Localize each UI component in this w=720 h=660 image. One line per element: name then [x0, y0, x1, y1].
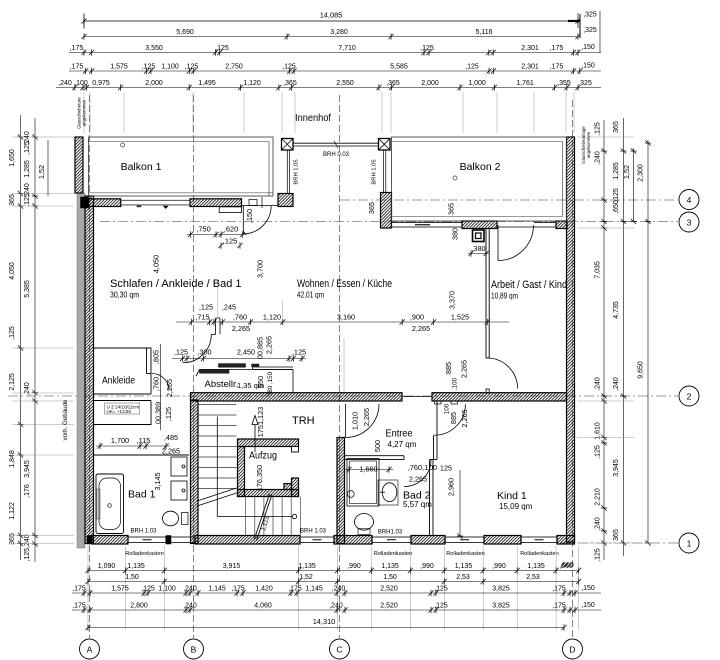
left dimension chain outer	[9, 115, 24, 560]
svg-text:1,50: 1,50	[383, 574, 397, 581]
svg-text:,650: ,650	[613, 200, 620, 214]
svg-text:2,301: 2,301	[521, 45, 539, 52]
svg-text:1,700: 1,700	[111, 436, 129, 445]
svg-text:00: 00	[429, 463, 437, 472]
column with inner square (Arbeit)	[473, 230, 485, 242]
TRH right wall	[337, 438, 345, 544]
door arc Entree-Kind 1	[434, 404, 465, 435]
column with X at Innenhof left-bottom	[278, 194, 293, 207]
svg-text:2,265: 2,265	[460, 360, 469, 378]
svg-text:1,848: 1,848	[9, 450, 16, 468]
svg-text:,175: ,175	[552, 586, 566, 593]
svg-text:2,450: 2,450	[237, 348, 255, 357]
svg-text:1,525: 1,525	[451, 313, 469, 322]
svg-text:2,53: 2,53	[456, 574, 470, 581]
svg-text:Rolladenkasten: Rolladenkasten	[125, 551, 164, 557]
left horizontal extension lines	[12, 137, 74, 544]
right exterior wall	[567, 137, 575, 542]
svg-text:2,800: 2,800	[130, 603, 148, 610]
svg-text:,125,240: ,125,240	[24, 534, 31, 561]
svg-text:,150: ,150	[581, 602, 595, 609]
svg-text:B: B	[191, 644, 197, 654]
svg-text:,125: ,125	[174, 348, 188, 357]
svg-text:1,575: 1,575	[111, 586, 129, 593]
svg-text:,125: ,125	[142, 64, 156, 71]
bottom wall hatch 1	[92, 536, 128, 545]
svg-text:,715: ,715	[195, 313, 209, 322]
svg-text:,660: ,660	[560, 562, 574, 569]
dims Entree (1,010 2,265 500)	[351, 408, 383, 452]
svg-text:,240: ,240	[24, 382, 31, 396]
Balkon 2 drain circle	[453, 176, 457, 180]
dim ,150 vertical at Schlafen door	[245, 209, 254, 223]
bottom wall hatch 2 (under TRH)	[195, 536, 300, 545]
grid axis A vertical dashed line	[89, 95, 91, 638]
grid-2 wall entree door sill	[402, 396, 432, 398]
svg-text:00,389: 00,389	[154, 402, 163, 424]
svg-text:2,265: 2,265	[265, 336, 274, 354]
top dimension chain row 3 (,175 3,550 ,125 7,710 ...)	[69, 44, 601, 56]
svg-text:1,135: 1,135	[127, 563, 145, 570]
beam label box UZ 24/18	[105, 403, 140, 414]
bottom wall hatch 6 corner	[557, 536, 575, 545]
svg-text:,125: ,125	[215, 45, 229, 52]
bottom wall window 1b	[171, 537, 195, 543]
svg-text:,760: ,760	[233, 313, 247, 322]
room label Arbeit/Gast/Kind	[491, 279, 567, 301]
left dimension 1,52	[37, 140, 48, 196]
svg-text:4,735: 4,735	[613, 301, 620, 319]
svg-text:3,825: 3,825	[492, 586, 510, 593]
grid bubble B	[184, 639, 204, 659]
svg-text:2,265: 2,265	[165, 379, 174, 397]
bottom dimension chain row 5 (14,310)	[85, 617, 566, 631]
washbasin Bad 2	[378, 480, 398, 505]
svg-text:,485: ,485	[164, 433, 178, 442]
svg-text:1,122: 1,122	[9, 502, 16, 520]
svg-text:,175: ,175	[70, 45, 84, 52]
svg-text:5,385: 5,385	[24, 280, 31, 298]
elevator Aufzug shaft walls	[238, 439, 299, 497]
svg-text:1,50: 1,50	[125, 574, 139, 581]
svg-text:2,550: 2,550	[336, 80, 354, 87]
grid axis 3 horizontal dash-dot line	[100, 221, 678, 223]
svg-text:,365: ,365	[386, 80, 400, 87]
svg-text:,175: ,175	[552, 603, 566, 610]
top extension lines	[84, 92, 574, 133]
svg-text:2,265: 2,265	[460, 409, 469, 427]
svg-text:,175: ,175	[550, 64, 564, 71]
svg-text:3,700: 3,700	[256, 260, 265, 278]
Innenhof railing	[293, 141, 379, 148]
svg-text:,990: ,990	[492, 563, 506, 570]
svg-text:1,100: 1,100	[161, 64, 179, 71]
svg-text:1751,123: 1751,123	[256, 407, 265, 437]
svg-text:380 ,150: 380 ,150	[267, 371, 274, 396]
partition Entree/Kind 1	[430, 401, 438, 536]
svg-text:3,915: 3,915	[223, 563, 241, 570]
svg-text:,125: ,125	[9, 326, 16, 340]
right dimension chain 2	[613, 118, 627, 556]
svg-text:A: A	[87, 644, 93, 654]
svg-text:10,89 qm: 10,89 qm	[491, 292, 518, 301]
svg-text:1,135: 1,135	[527, 563, 545, 570]
right glass label	[581, 126, 591, 164]
svg-text:angekommen: angekommen	[586, 131, 591, 158]
svg-text:0,975: 0,975	[92, 80, 110, 87]
svg-text:Kind 1: Kind 1	[497, 490, 527, 502]
stair direction arrow	[252, 416, 258, 453]
grid axis D vertical dashed line	[572, 100, 574, 638]
bottom wall window 2	[300, 537, 334, 543]
grid-2 wall hatch left section	[191, 393, 403, 401]
svg-text:BRH 1.03: BRH 1.03	[300, 529, 327, 535]
svg-text:5,57 qm: 5,57 qm	[403, 500, 432, 509]
svg-text:1,135: 1,135	[455, 563, 473, 570]
svg-text:,380: ,380	[471, 244, 485, 253]
partition Entree/Bad 2	[345, 456, 404, 460]
svg-text:3,370: 3,370	[448, 291, 457, 309]
door arc Wohnen-Arbeit	[487, 358, 518, 389]
svg-text:,125: ,125	[595, 445, 602, 459]
svg-text:,175: ,175	[550, 45, 564, 52]
left dimension chain inner	[24, 118, 38, 562]
svg-text:1,52: 1,52	[622, 165, 631, 179]
Innenhof right glass line	[384, 150, 386, 193]
svg-text:Rolladenkasten: Rolladenkasten	[374, 551, 413, 557]
svg-text:380: 380	[451, 228, 460, 240]
svg-text:3,160: 3,160	[337, 313, 355, 322]
svg-text:00,885: 00,885	[256, 337, 265, 359]
svg-text:3,145: 3,145	[153, 472, 162, 490]
svg-text:,125: ,125	[434, 603, 448, 610]
svg-text:3,945: 3,945	[613, 459, 620, 477]
svg-text:30,30 qm: 30,30 qm	[110, 291, 139, 300]
top-right wall hatch segment	[462, 221, 497, 229]
kitchen counter dark bar 1	[200, 370, 230, 374]
svg-text:1,52: 1,52	[299, 574, 313, 581]
svg-text:2,520: 2,520	[380, 603, 398, 610]
svg-text:1,761: 1,761	[516, 80, 534, 87]
bottom dimension chain row 1 (1,090 1,135 3,915 ...)	[85, 563, 581, 574]
svg-text:,175: ,175	[72, 603, 86, 610]
grid axis 2 horizontal dash-dot line	[8, 395, 678, 397]
top dimension chain row 2 (5,690 3,280 5,116)	[81, 27, 597, 40]
dims above wall (885 100 2,265)	[344, 338, 469, 392]
svg-text:1,650: 1,650	[9, 149, 16, 167]
svg-text:UK= +13,85: UK= +13,85	[107, 409, 132, 414]
grid bubble D	[563, 639, 583, 659]
svg-text:,125: ,125	[24, 141, 31, 155]
top wall hatch segment mid	[190, 199, 242, 207]
svg-text:,175: ,175	[70, 64, 84, 71]
staircase cut line	[197, 488, 237, 506]
door arc Ankleide	[152, 374, 169, 391]
radiator Bad 1	[97, 489, 100, 519]
svg-text:1,135: 1,135	[381, 563, 399, 570]
svg-text:176,350: 176,350	[255, 465, 264, 491]
svg-text:Aufzug: Aufzug	[249, 450, 277, 462]
svg-text:1,010: 1,010	[351, 412, 360, 430]
svg-text:4,050: 4,050	[152, 255, 161, 273]
svg-text:,125: ,125	[185, 64, 199, 71]
svg-text:1,285: 1,285	[24, 160, 31, 178]
Ankleide room box	[94, 348, 152, 425]
svg-text:,240: ,240	[58, 80, 72, 87]
svg-text:,760: ,760	[152, 377, 161, 391]
bottom wall window 1	[128, 537, 166, 543]
svg-text:Rolladenkasten: Rolladenkasten	[446, 551, 485, 557]
top-right wall door opening sill	[497, 226, 534, 228]
right dimension chain 3	[638, 140, 652, 546]
balkon 1 floor slab edge lines	[89, 192, 273, 194]
top dimension chain row 5 (,240 ,100 0,975 2,000 ...)	[56, 80, 601, 91]
svg-text:,125: ,125	[141, 586, 155, 593]
bathtub Bad 1	[96, 474, 124, 534]
svg-text:,900: ,900	[410, 313, 424, 322]
svg-text:1,090: 1,090	[98, 563, 116, 570]
svg-text:Ankleide: Ankleide	[102, 375, 135, 387]
svg-text:5,585: 5,585	[390, 64, 408, 71]
shower/washer Bad 2	[347, 459, 379, 507]
svg-text:4: 4	[687, 195, 692, 205]
door arc Entree left (apartment entry)	[346, 404, 380, 438]
svg-text:Wohnen / Essen / Küche: Wohnen / Essen / Küche	[297, 278, 392, 290]
grid bubble 3	[679, 212, 699, 232]
top wall hatch segment left	[89, 199, 121, 207]
right dimension mini chain 1,52	[622, 148, 637, 224]
svg-text:,240: ,240	[332, 586, 346, 593]
Abstellraum outline	[196, 370, 293, 393]
top wall: black corner cap at A	[81, 197, 89, 208]
dim row Abstell top (,125 ,300 2,450 ,125)	[172, 336, 306, 396]
grid bubble 1	[679, 533, 699, 553]
door arc Schlafen-Wohnen passage	[183, 283, 220, 363]
top-right wall window segment 2	[534, 223, 556, 228]
svg-text:,175: ,175	[72, 586, 86, 593]
svg-text:2,960: 2,960	[447, 478, 456, 496]
svg-text:,150: ,150	[245, 209, 254, 223]
svg-text:1,420: 1,420	[255, 586, 273, 593]
svg-text:,125: ,125	[420, 45, 434, 52]
svg-text:,760,1: ,760,1	[408, 463, 428, 472]
bottom dimension chain row 4 (,175 2,800 ,240 4,060 ...)	[72, 602, 601, 613]
partition stub below Arbeit door	[486, 389, 489, 393]
svg-text:15,09 qm: 15,09 qm	[499, 502, 533, 511]
grid axis 1 horizontal dash-dot line	[560, 542, 678, 544]
svg-text:,150: ,150	[581, 44, 595, 51]
dim ,380 below column	[468, 244, 489, 257]
room label Bad 2	[403, 490, 432, 510]
svg-text:1,120: 1,120	[263, 313, 281, 322]
svg-text:1,120: 1,120	[243, 80, 261, 87]
svg-text:1,100: 1,100	[158, 586, 176, 593]
svg-text:,365: ,365	[283, 80, 297, 87]
svg-text:,125: ,125	[595, 548, 602, 562]
svg-text:,100: ,100	[74, 80, 88, 87]
svg-text:,125: ,125	[434, 586, 448, 593]
svg-text:3,945: 3,945	[24, 460, 31, 478]
svg-text:angekommen: angekommen	[82, 99, 87, 126]
bottom wall window 3	[372, 537, 411, 543]
svg-text:1,285: 1,285	[613, 162, 620, 180]
svg-text:1,000: 1,000	[468, 80, 486, 87]
svg-text:2,750: 2,750	[225, 64, 243, 71]
grid-2 wall: beam lines under Ankleide	[94, 394, 152, 401]
top dimension chain row 4 (,175 1,575 ,125 1,100 ...)	[69, 63, 601, 75]
svg-text:Entree: Entree	[386, 428, 413, 440]
svg-text:2,265: 2,265	[412, 324, 430, 333]
svg-text:885: 885	[449, 412, 458, 424]
svg-text:3,280: 3,280	[330, 29, 348, 36]
svg-text:2: 2	[687, 391, 692, 401]
svg-text:365: 365	[367, 202, 376, 214]
svg-text:2,000: 2,000	[145, 80, 163, 87]
svg-text:7,035: 7,035	[595, 261, 602, 279]
svg-text:2,265: 2,265	[362, 408, 371, 426]
room label Wohnen/Essen/Kueche	[297, 278, 392, 300]
closet box below top wall	[219, 207, 241, 213]
svg-text:5,690: 5,690	[176, 29, 194, 36]
svg-text:,325: ,325	[583, 12, 597, 19]
svg-text:7,710: 7,710	[338, 45, 356, 52]
Innenhof left column	[282, 139, 294, 151]
Balkon 1 outline	[89, 137, 274, 196]
Innenhof left glass line	[287, 150, 289, 194]
svg-text:Schlafen / Ankleide / Bad 1: Schlafen / Ankleide / Bad 1	[110, 278, 241, 290]
svg-text:,175: ,175	[231, 586, 245, 593]
svg-text:2,265: 2,265	[162, 447, 180, 456]
svg-text:,125: ,125	[595, 122, 602, 136]
svg-text:Bad 1: Bad 1	[128, 489, 156, 501]
bottom wall window 5	[521, 537, 557, 543]
svg-text:,125: ,125	[223, 237, 237, 246]
washbasin units Bad 1	[171, 457, 187, 500]
svg-text:1,495: 1,495	[198, 80, 216, 87]
svg-text:,150: ,150	[581, 63, 595, 70]
door jamb marks below grid-2 wall	[435, 401, 458, 404]
bottom wall hatch 4	[411, 536, 445, 545]
svg-text:,805: ,805	[152, 350, 161, 364]
svg-text:365: 365	[9, 194, 16, 206]
stair slope diagonal	[254, 494, 272, 541]
svg-text:,240: ,240	[595, 517, 602, 531]
svg-text:BRH1.03: BRH1.03	[378, 530, 403, 536]
Balkon 2 outline	[392, 137, 567, 221]
svg-text:2,520: 2,520	[380, 586, 398, 593]
svg-text:C: C	[336, 644, 342, 654]
svg-text:,240: ,240	[595, 377, 602, 391]
svg-text:,125: ,125	[613, 188, 620, 202]
svg-text:3,550: 3,550	[145, 45, 163, 52]
Innenhof right column	[379, 139, 391, 151]
grid bubble A	[80, 639, 100, 659]
door arc Bad 2	[404, 460, 431, 487]
svg-text:,750: ,750	[196, 225, 210, 234]
svg-text:,115: ,115	[137, 436, 151, 445]
svg-text:,125: ,125	[24, 193, 31, 207]
svg-text:,240: ,240	[595, 151, 602, 165]
svg-text:2,125: 2,125	[9, 373, 16, 391]
svg-text:3: 3	[687, 217, 692, 227]
svg-text:Balkon 1: Balkon 1	[121, 161, 162, 173]
svg-text:,300: ,300	[197, 348, 211, 357]
kitchen counter dark bar 2	[219, 364, 246, 368]
svg-text:,125: ,125	[199, 303, 213, 312]
grid bubble C	[330, 639, 350, 659]
svg-text:,125: ,125	[465, 64, 479, 71]
partition Ankleide/Bad 1	[94, 454, 190, 456]
dim row Schlafen top (,750 ,620)	[187, 225, 247, 249]
svg-text:550: 550	[256, 376, 265, 388]
dims left of Ankleide (,805 ,760 00,389 ,125 2,265)	[152, 344, 175, 430]
grid bubble 2	[679, 386, 699, 406]
svg-text:Arbeit / Gast / Kind: Arbeit / Gast / Kind	[491, 279, 567, 291]
svg-text:,175: ,175	[288, 586, 302, 593]
existing building grey wall strip (vorh. Gebaeude)	[77, 193, 85, 548]
svg-text:,125: ,125	[282, 64, 296, 71]
room label Kind 1	[497, 490, 533, 511]
svg-text:2,265: 2,265	[409, 475, 427, 484]
staircase left run treads	[197, 405, 237, 489]
bottom extension lines	[88, 546, 579, 630]
dim row Bad 1 top (1,700 ,115 ,485 2,265)	[96, 433, 180, 456]
svg-text:BRH 1.03: BRH 1.03	[130, 529, 157, 535]
svg-text:1,145: 1,145	[208, 586, 226, 593]
svg-text:,125: ,125	[292, 348, 306, 357]
TRH left wall	[191, 400, 199, 544]
bottom window center marks	[128, 536, 557, 544]
bottom wall hatch 5	[484, 536, 521, 545]
door arc Schlafen (top wall)	[243, 206, 271, 234]
bottom wall pier black	[166, 536, 171, 545]
Balkon 1 drain circle	[121, 143, 125, 147]
svg-text:Rolladenkasten: Rolladenkasten	[520, 551, 559, 557]
svg-text:Balkon 2: Balkon 2	[460, 161, 501, 173]
svg-text:1: 1	[687, 538, 692, 548]
grid-2 wall hatch right section	[432, 393, 567, 401]
bottom wall hatch 3	[334, 536, 372, 545]
svg-text:365: 365	[613, 529, 620, 541]
svg-text:,355: ,355	[557, 80, 571, 87]
svg-text:2,301: 2,301	[521, 64, 539, 71]
svg-text:1,135: 1,135	[298, 563, 316, 570]
svg-text:42,01 qm: 42,01 qm	[297, 291, 324, 300]
dims Bad 2 (1,660 ,760,1 00 125 2,265 2,960)	[345, 463, 463, 539]
kitchen small mark	[252, 364, 260, 367]
svg-text:,100: ,100	[452, 377, 459, 390]
grid bubble 4	[679, 190, 699, 210]
svg-text:885: 885	[444, 362, 453, 374]
svg-text:TRH: TRH	[292, 415, 315, 427]
svg-text:D: D	[569, 644, 575, 654]
svg-text:,240: ,240	[613, 377, 620, 391]
svg-text:,240: ,240	[329, 603, 343, 610]
svg-text:365: 365	[447, 203, 456, 215]
svg-text:,125: ,125	[164, 407, 173, 421]
left exterior wall of Balkon 1	[75, 137, 83, 193]
bottom dimension chain row 2 (1,50 1,52 2,53)	[85, 574, 581, 585]
svg-text:2,210: 2,210	[595, 488, 602, 506]
svg-text:1,575: 1,575	[110, 64, 128, 71]
toilet Bad 2	[355, 514, 374, 535]
svg-text:325: 325	[580, 80, 592, 87]
left wall glass label	[77, 97, 87, 129]
svg-text:4,27 qm: 4,27 qm	[388, 440, 417, 449]
bottom wall: black pier at left corner	[87, 536, 92, 545]
dim row Wohnen bottom (,715 ,760 1,120 3,160 ,900 1,525)	[176, 300, 509, 333]
svg-text:,240: ,240	[183, 603, 197, 610]
